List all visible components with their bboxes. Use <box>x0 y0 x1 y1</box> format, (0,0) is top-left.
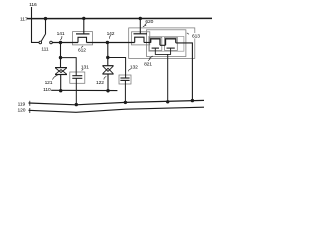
wire: valley between Q1 and Q2 <box>160 44 166 46</box>
wire: into 613 box <box>144 41 151 43</box>
node: 132 junction on line 119 <box>124 101 127 104</box>
leader tick for 141 <box>60 36 62 40</box>
node: 122 junction on line 110 <box>106 89 109 92</box>
leader squiggle for 142 <box>109 35 111 38</box>
transistor Q1 gate bar <box>152 47 159 49</box>
svg-text:122: 122 <box>96 80 104 86</box>
node: junction 142 above 122 <box>106 41 109 44</box>
node: branch junction to 132 <box>106 56 109 59</box>
svg-text:131: 131 <box>81 65 89 71</box>
leader squiggle for 620 <box>143 23 147 27</box>
transistor (620 block left) gate lead from bus <box>139 19 141 34</box>
transistor 612 channel hump <box>78 37 87 42</box>
leader squiggle for 131 <box>82 69 83 71</box>
varistor 122 (back-to-back diode hourglass) <box>102 66 113 74</box>
wire: 122 to line 110 <box>107 74 109 91</box>
svg-text:612: 612 <box>78 48 86 54</box>
wire: drop from node 142 to varistor 122 <box>107 42 109 65</box>
wire: branch to capacitor 131 <box>61 58 77 76</box>
transistor 612 gate bar <box>76 33 90 35</box>
node: 131 junction on line 119 <box>75 103 78 106</box>
svg-text:821: 821 <box>144 62 152 68</box>
svg-text:141: 141 <box>57 31 65 37</box>
transistor Q2 gate bar <box>167 47 175 49</box>
box 613 (inner thin enclosure) <box>147 30 186 57</box>
node: junction gate net on line 119 <box>166 100 169 103</box>
wire: branch to capacitor 132 <box>108 58 126 79</box>
wire: node 142 from 612 to 620 block <box>87 41 135 43</box>
node: 121 junction on line 110 <box>59 89 62 92</box>
leader tick for 612 <box>81 46 83 48</box>
wire: line 119 <box>29 100 205 104</box>
transistor Q2 channel hump (613) <box>166 39 176 46</box>
capacitor 132 box <box>119 75 131 84</box>
box 620 (outer thin enclosure) <box>129 28 195 59</box>
transistor (620 block left) channel hump <box>135 37 144 42</box>
wire: gate net drop to line 119 <box>167 54 169 101</box>
transistor box Q2 inside 613 <box>165 37 178 50</box>
svg-text:132: 132 <box>130 64 138 70</box>
svg-text:620: 620 <box>145 19 153 25</box>
switch 111 left contact <box>39 41 42 44</box>
svg-text:120: 120 <box>17 108 25 114</box>
capacitor 131 plates <box>72 76 82 79</box>
wire: line 110 <box>51 89 117 91</box>
wire: gate common 821 <box>155 48 170 54</box>
transistor box (left MOSFET of 620 block) <box>132 32 150 45</box>
node: junction on line 119 right <box>191 99 194 102</box>
node: bus junction at 612 gate <box>82 17 85 20</box>
tick at start of line 119 <box>29 101 31 106</box>
node: branch junction to 131 <box>59 56 62 59</box>
leader squiggle for 122 <box>104 77 106 80</box>
capacitor 132 plates <box>120 78 129 80</box>
wire: 121 to line 110 <box>60 75 62 91</box>
svg-text:613: 613 <box>192 33 200 39</box>
svg-text:116: 116 <box>29 2 37 8</box>
label 613 <box>190 33 200 38</box>
transistor pair inner box (613) <box>149 36 184 51</box>
node: bus junction above switch <box>44 17 47 20</box>
transistor (620 block left) gate bar <box>134 33 148 35</box>
wire: 613 output to right drop <box>176 43 193 101</box>
leader tick for 613 <box>187 33 189 34</box>
wire: top bus 117 <box>27 17 212 19</box>
wire: drop from bus to switch blade <box>45 19 47 34</box>
wire: vertical line 116 <box>31 7 33 42</box>
transistor box 612 <box>73 32 93 45</box>
wire: 131 bottom lead to line 119 <box>75 78 77 104</box>
switch 111 right contact <box>50 41 53 44</box>
node: junction 141 <box>59 41 62 44</box>
tick at start of line 120 <box>29 108 31 113</box>
svg-text:111: 111 <box>41 47 49 53</box>
node: bus junction at 620 gate <box>139 17 142 20</box>
switch 111 blade <box>41 34 46 42</box>
wire: node 141 from switch to transistor 612 <box>52 41 78 43</box>
leader squiggle for 132 <box>128 69 130 71</box>
wire: 116 line to switch left contact <box>31 41 39 43</box>
transistor 612 gate lead <box>83 18 85 34</box>
wire: line 120 <box>29 107 205 112</box>
svg-text:110: 110 <box>43 87 51 93</box>
svg-text:142: 142 <box>107 31 115 37</box>
leader squiggle for 821 <box>148 56 153 61</box>
leader squiggle for 121 <box>53 75 58 79</box>
svg-text:119: 119 <box>18 102 26 108</box>
varistor 121 (back-to-back diode hourglass) <box>55 68 67 75</box>
svg-text:117: 117 <box>20 17 28 23</box>
transistor Q1 channel hump (613) <box>151 39 160 46</box>
wire: drop from node 141 to varistor 121 <box>60 42 62 67</box>
transistor box Q1 inside 613 <box>149 37 162 50</box>
capacitor 131 box <box>70 72 85 83</box>
wire: 132 bottom lead to line 119 <box>124 80 126 102</box>
svg-text:121: 121 <box>45 80 53 86</box>
